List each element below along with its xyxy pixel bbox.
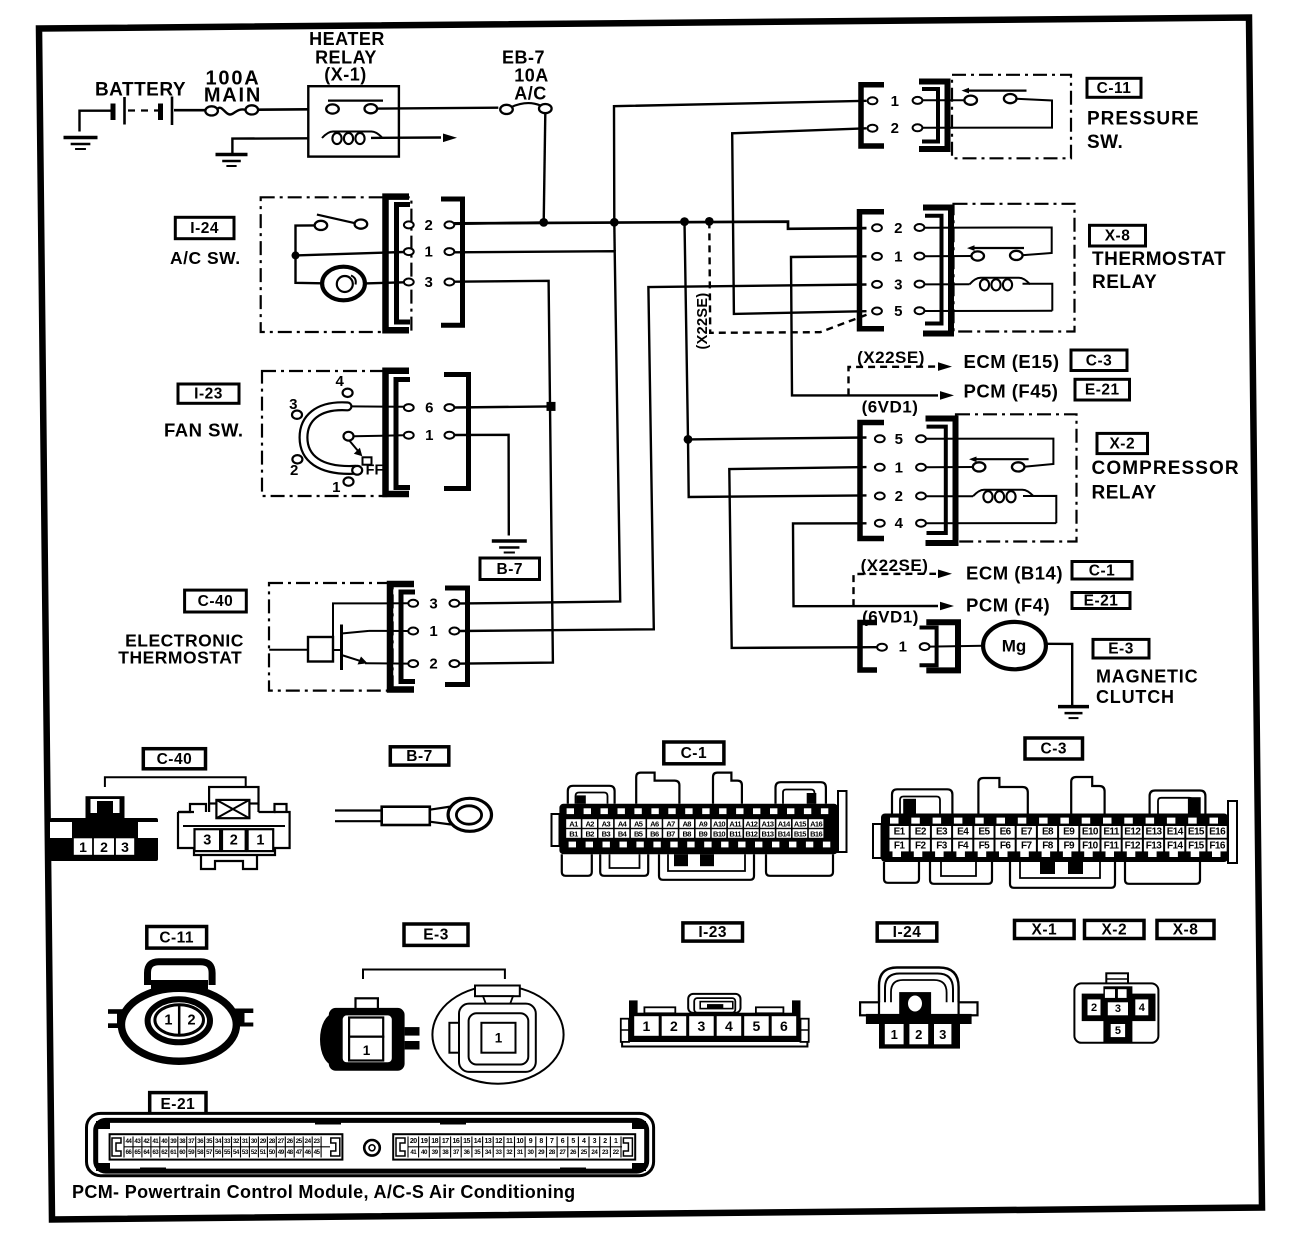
svg-text:4: 4: [725, 1018, 733, 1034]
svg-text:E10: E10: [1082, 827, 1099, 838]
wire: dashed (X22SE) branch to X-8 pin 5: [709, 221, 866, 332]
wire: C-11 pin 2 down to X-8 pin 5: [732, 128, 866, 314]
wire: Mg to ground: [1046, 644, 1072, 706]
svg-text:E13: E13: [1146, 827, 1163, 838]
connector I-23 label: [178, 384, 239, 403]
svg-text:E-21: E-21: [1084, 593, 1119, 610]
pressure switch contacts: [922, 88, 1052, 128]
svg-text:54: 54: [233, 1149, 240, 1156]
svg-text:4: 4: [582, 1138, 586, 1145]
svg-text:E-3: E-3: [423, 927, 449, 944]
svg-text:B5: B5: [634, 829, 643, 838]
compressor relay body (dashed): [956, 414, 1077, 541]
svg-text:E1: E1: [894, 827, 906, 838]
thermostat internals (sensor + transistor): [269, 603, 408, 670]
svg-text:35: 35: [474, 1149, 481, 1156]
wire: X-8 pin 1 to PCM (F45): [791, 256, 938, 395]
wire: X-8 pin 3 down to C-40 pin 1: [459, 285, 866, 632]
svg-text:15: 15: [463, 1138, 470, 1145]
compressor relay internals: [926, 439, 1057, 524]
svg-text:11: 11: [506, 1138, 513, 1145]
connector I-24 (A/C SW) pins: [386, 197, 463, 331]
connector E-21 (PCM 80-pin): [87, 1113, 654, 1175]
svg-text:E16: E16: [1209, 827, 1226, 838]
svg-text:61: 61: [170, 1149, 177, 1156]
connector X-1 label (bottom): [1015, 920, 1075, 938]
connector E-3 rear view (black): [320, 998, 420, 1071]
svg-text:1: 1: [425, 427, 434, 444]
connector C-40 front view (outline): [178, 787, 290, 869]
svg-text:F1: F1: [894, 840, 906, 851]
svg-text:E15: E15: [1188, 827, 1205, 838]
svg-text:45: 45: [314, 1149, 321, 1156]
connector E-3 pins: [860, 622, 958, 670]
svg-text:F10: F10: [1082, 840, 1098, 851]
svg-text:F8: F8: [1042, 840, 1054, 851]
svg-text:9: 9: [529, 1138, 533, 1145]
connector C-3 (32-pin): [873, 777, 1237, 888]
bracket line under E-3 label: [363, 970, 505, 980]
svg-text:I-24: I-24: [190, 220, 219, 237]
svg-text:B8: B8: [682, 829, 691, 838]
connector I-24 view: [860, 968, 977, 1049]
svg-text:E2: E2: [915, 827, 927, 838]
svg-text:5: 5: [894, 303, 903, 320]
connector I-24 label: [175, 217, 234, 238]
svg-text:27: 27: [559, 1149, 566, 1156]
svg-text:C-1: C-1: [681, 745, 707, 762]
svg-text:F6: F6: [1000, 840, 1012, 851]
connector E-3 label: [1093, 639, 1149, 658]
connector X-2 label: [1097, 433, 1148, 453]
svg-text:A16: A16: [810, 819, 822, 828]
svg-text:COMPRESSOR: COMPRESSOR: [1092, 458, 1240, 479]
fan switch outline (dashed): [262, 371, 386, 496]
svg-text:A13: A13: [762, 819, 774, 828]
svg-text:16: 16: [453, 1138, 460, 1145]
svg-text:6: 6: [561, 1138, 565, 1145]
svg-text:2: 2: [603, 1138, 607, 1145]
svg-text:A1: A1: [569, 819, 578, 828]
svg-text:3: 3: [894, 276, 903, 293]
svg-text:E8: E8: [1042, 827, 1054, 838]
svg-text:14: 14: [474, 1138, 481, 1145]
node: junction dots on B+ bus: [539, 218, 548, 227]
svg-text:B-7: B-7: [497, 561, 523, 578]
svg-text:37: 37: [188, 1138, 195, 1145]
svg-text:MAIN: MAIN: [204, 85, 262, 107]
svg-text:E5: E5: [978, 827, 990, 838]
svg-text:B3: B3: [602, 829, 611, 838]
node: square junction at FAN SW pin 6: [547, 402, 556, 411]
wire: A/C SW pin 3 down to C-40 pin 2 (via FAN SW junction): [453, 281, 553, 664]
svg-text:C-11: C-11: [1097, 80, 1132, 97]
svg-text:PCM- Powertrain Control Module: PCM- Powertrain Control Module, A/C-S Ai…: [72, 1182, 576, 1202]
ground (magnetic clutch): [1058, 707, 1089, 719]
svg-text:7: 7: [550, 1138, 554, 1145]
wire: junction up to C-11 pin 1: [614, 101, 867, 223]
svg-text:10A: 10A: [514, 66, 549, 86]
wire: X-2 pin 1 down to E-3 pin 1: [729, 467, 877, 648]
svg-text:1: 1: [895, 459, 904, 476]
svg-text:30: 30: [251, 1138, 258, 1145]
svg-text:C-1: C-1: [1089, 562, 1115, 579]
svg-text:52: 52: [251, 1149, 258, 1156]
svg-text:F15: F15: [1188, 840, 1204, 851]
svg-text:8: 8: [539, 1138, 543, 1145]
svg-text:59: 59: [188, 1149, 195, 1156]
wire: dashed branch to ECM (B14): [854, 574, 937, 606]
svg-text:A11: A11: [729, 819, 741, 828]
svg-text:(X22SE): (X22SE): [857, 348, 925, 367]
svg-text:(X22SE): (X22SE): [861, 556, 929, 575]
svg-text:30: 30: [528, 1149, 535, 1156]
ground B-7 label: [480, 558, 540, 580]
svg-text:2: 2: [429, 656, 438, 673]
svg-text:F4: F4: [957, 840, 969, 851]
svg-text:12: 12: [495, 1138, 502, 1145]
svg-text:B7: B7: [666, 829, 675, 838]
svg-text:A12: A12: [745, 819, 757, 828]
connector C-40 pins: [390, 584, 468, 690]
svg-text:57: 57: [206, 1149, 213, 1156]
svg-text:X-1: X-1: [1031, 921, 1057, 938]
wire: X-2 pin 4 to PCM (F4): [793, 523, 938, 606]
ground (heater relay coil): [216, 155, 248, 167]
thermostat relay internals: [924, 228, 1052, 312]
svg-text:2: 2: [894, 220, 903, 237]
svg-text:C-40: C-40: [157, 751, 193, 768]
svg-text:A3: A3: [602, 819, 611, 828]
svg-text:5: 5: [753, 1018, 761, 1034]
svg-text:ECM (E15): ECM (E15): [964, 351, 1060, 372]
connector C-11 label: [1087, 78, 1141, 97]
ground (battery): [64, 138, 98, 150]
svg-text:B-7: B-7: [406, 748, 432, 765]
svg-text:4: 4: [1139, 1002, 1146, 1014]
svg-text:E3: E3: [936, 827, 948, 838]
svg-text:X-8: X-8: [1173, 921, 1199, 938]
svg-text:MAGNETIC: MAGNETIC: [1096, 667, 1198, 687]
connector X-8 label: [1090, 225, 1146, 246]
svg-text:B4: B4: [618, 829, 628, 838]
connector E-21 label (bottom): [150, 1093, 206, 1116]
wire: main B+ bus row: [454, 222, 867, 229]
svg-text:FAN SW.: FAN SW.: [164, 420, 244, 441]
svg-text:1: 1: [643, 1018, 651, 1034]
svg-text:2: 2: [1091, 1002, 1097, 1014]
svg-text:10: 10: [516, 1138, 523, 1145]
svg-text:E7: E7: [1021, 827, 1033, 838]
svg-text:X-2: X-2: [1101, 921, 1127, 938]
svg-text:I-23: I-23: [698, 924, 727, 941]
svg-text:1: 1: [424, 244, 433, 261]
svg-text:B15: B15: [794, 829, 806, 838]
magnetic clutch Mg: [983, 622, 1046, 669]
svg-text:E12: E12: [1124, 827, 1141, 838]
svg-text:1: 1: [332, 479, 341, 496]
svg-text:1: 1: [891, 93, 900, 110]
svg-text:A8: A8: [682, 819, 691, 828]
svg-text:19: 19: [421, 1138, 428, 1145]
svg-text:F11: F11: [1104, 840, 1120, 851]
svg-text:Mg: Mg: [1002, 637, 1027, 656]
svg-text:37: 37: [453, 1149, 460, 1156]
svg-text:THERMOSTAT: THERMOSTAT: [118, 648, 242, 668]
svg-text:E-21: E-21: [1085, 382, 1120, 399]
svg-text:3: 3: [698, 1018, 706, 1034]
svg-text:1: 1: [256, 833, 264, 849]
svg-text:E6: E6: [1000, 827, 1012, 838]
svg-text:6: 6: [425, 400, 434, 417]
svg-text:A2: A2: [585, 819, 594, 828]
svg-text:X-2: X-2: [1109, 436, 1135, 453]
svg-text:B6: B6: [650, 829, 659, 838]
connector X-8 (thermostat relay) pins: [860, 208, 952, 334]
svg-text:5: 5: [895, 431, 904, 448]
connector X-2 (compressor relay) pins: [860, 419, 956, 544]
electronic thermostat outline (dashed): [269, 583, 393, 691]
svg-text:B13: B13: [762, 829, 774, 838]
svg-text:28: 28: [269, 1138, 276, 1145]
fuse EB-7 10A A/C: [500, 48, 551, 115]
svg-text:32: 32: [506, 1149, 513, 1156]
svg-text:A5: A5: [634, 819, 643, 828]
connector C-1 (32-pin): [552, 773, 847, 880]
connector C-3 label (bottom): [1025, 738, 1083, 759]
svg-text:C-11: C-11: [159, 929, 194, 946]
svg-text:25: 25: [581, 1149, 588, 1156]
wire: junction down to X-2 pin 5 / pin 2: [685, 222, 867, 497]
connector C-40 label: [185, 590, 247, 612]
svg-text:3: 3: [593, 1138, 597, 1145]
svg-text:23: 23: [314, 1138, 321, 1145]
connector C-40 label (bottom): [143, 749, 205, 769]
svg-text:CLUTCH: CLUTCH: [1096, 687, 1175, 707]
svg-text:1: 1: [495, 1030, 503, 1045]
connector E-21 ref label lower: [1072, 593, 1130, 609]
A/C switch outline (dashed): [261, 197, 412, 332]
svg-text:F14: F14: [1167, 840, 1183, 851]
svg-text:A4: A4: [618, 819, 628, 828]
svg-text:44: 44: [125, 1138, 132, 1145]
connector I-23 (FAN SW) pins: [386, 371, 469, 494]
svg-text:B10: B10: [713, 829, 725, 838]
svg-text:B1: B1: [569, 829, 578, 838]
svg-text:A/C: A/C: [514, 84, 547, 104]
svg-text:A14: A14: [778, 819, 791, 828]
svg-text:RELAY: RELAY: [1092, 272, 1157, 293]
svg-text:22: 22: [613, 1149, 620, 1156]
wire: A/C SW pin 2 to B+ junction: [455, 222, 544, 224]
svg-text:5: 5: [1115, 1025, 1121, 1037]
connector E-3 front view (outline): [432, 986, 563, 1084]
svg-text:F2: F2: [915, 840, 927, 851]
svg-text:A6: A6: [650, 819, 659, 828]
svg-text:1: 1: [894, 248, 903, 265]
svg-text:1: 1: [79, 839, 87, 855]
svg-text:FF: FF: [366, 463, 384, 479]
svg-text:3: 3: [203, 833, 211, 849]
svg-text:SW.: SW.: [1087, 132, 1123, 153]
svg-text:E-3: E-3: [1108, 641, 1134, 658]
svg-text:EB-7: EB-7: [502, 48, 545, 68]
connector X-2 label (bottom): [1085, 920, 1145, 938]
connector E-3 label (bottom): [404, 924, 468, 945]
svg-text:B14: B14: [778, 829, 791, 838]
svg-text:3: 3: [429, 595, 438, 612]
svg-text:F5: F5: [979, 840, 991, 851]
pressure switch body (dashed): [952, 75, 1071, 159]
svg-text:39: 39: [170, 1138, 177, 1145]
svg-text:35: 35: [206, 1138, 213, 1145]
svg-text:20: 20: [410, 1138, 417, 1145]
wire: E-3 to magnetic clutch: [930, 645, 984, 648]
svg-text:F16: F16: [1209, 840, 1225, 851]
connector C-1 ref label: [1072, 562, 1132, 580]
connector E-21 ref label: [1075, 379, 1130, 400]
svg-text:F12: F12: [1125, 840, 1141, 851]
svg-text:3: 3: [121, 839, 129, 855]
svg-text:E14: E14: [1167, 827, 1184, 838]
svg-text:A/C SW.: A/C SW.: [170, 248, 241, 268]
svg-text:C-3: C-3: [1041, 741, 1067, 758]
svg-text:1: 1: [891, 1027, 898, 1042]
svg-text:40: 40: [421, 1149, 428, 1156]
svg-text:F7: F7: [1021, 840, 1033, 851]
bracket line under C-40 label: [105, 777, 246, 787]
svg-text:B16: B16: [810, 829, 822, 838]
svg-text:ECM (B14): ECM (B14): [966, 562, 1063, 583]
connector X-1/X-2/X-8 view: [1074, 973, 1158, 1043]
svg-text:RELAY: RELAY: [1092, 482, 1157, 503]
connector I-24 label (bottom): [877, 923, 937, 941]
svg-text:(X22SE): (X22SE): [695, 293, 711, 350]
battery: [80, 80, 206, 132]
connector C-1 label (bottom): [664, 742, 724, 764]
svg-text:B12: B12: [745, 829, 757, 838]
svg-text:THERMOSTAT: THERMOSTAT: [1092, 249, 1226, 270]
svg-text:26: 26: [287, 1138, 294, 1145]
svg-text:E4: E4: [957, 827, 969, 838]
svg-text:X-8: X-8: [1105, 228, 1131, 245]
svg-text:HEATER: HEATER: [309, 29, 385, 49]
connector C-11 round view: [108, 962, 254, 1061]
svg-text:F13: F13: [1146, 840, 1162, 851]
ground B-7: [492, 541, 527, 553]
wire: FAN SW pin 1 to ground B-7: [455, 435, 509, 536]
svg-text:(6VD1): (6VD1): [862, 398, 919, 417]
svg-text:66: 66: [125, 1149, 132, 1156]
rotary fan switch: [289, 373, 404, 496]
switch (A/C SW): [292, 215, 405, 284]
svg-text:3: 3: [939, 1027, 946, 1042]
svg-text:2: 2: [230, 833, 238, 849]
svg-text:B2: B2: [585, 829, 594, 838]
svg-text:PRESSURE: PRESSURE: [1087, 109, 1200, 130]
svg-text:3: 3: [424, 274, 433, 291]
svg-text:2: 2: [188, 1012, 196, 1028]
svg-text:I-23: I-23: [194, 386, 223, 403]
svg-text:2: 2: [915, 1027, 922, 1042]
svg-text:B11: B11: [729, 829, 741, 838]
svg-text:4: 4: [335, 373, 344, 390]
svg-text:B9: B9: [699, 829, 708, 838]
svg-text:2: 2: [895, 488, 904, 505]
svg-text:18: 18: [431, 1138, 438, 1145]
svg-text:1: 1: [614, 1138, 618, 1145]
svg-text:4: 4: [895, 515, 904, 532]
wire: dashed branch to ECM (E15): [849, 367, 937, 396]
fuse 100A MAIN (fusible link): [204, 68, 308, 116]
connector C-3 ref label: [1071, 350, 1127, 371]
wire: EB-7 fuse down to B+ junction: [544, 113, 546, 222]
connector C-40 rear view (black): [50, 796, 158, 861]
svg-text:2: 2: [891, 120, 900, 137]
connector I-23 view: [621, 994, 809, 1047]
svg-text:(X-1): (X-1): [324, 65, 367, 85]
connector C-11 label (bottom): [147, 927, 207, 949]
svg-text:32: 32: [233, 1138, 240, 1145]
svg-text:3: 3: [1115, 1003, 1121, 1015]
B-7 ring terminal: [335, 798, 491, 831]
svg-text:I-24: I-24: [893, 924, 922, 941]
connector I-23 label (bottom): [683, 923, 743, 941]
svg-text:F9: F9: [1063, 840, 1075, 851]
svg-text:1: 1: [899, 639, 908, 656]
svg-text:2: 2: [424, 217, 433, 234]
svg-text:A9: A9: [699, 819, 708, 828]
ground B-7 label (bottom): [390, 747, 449, 765]
svg-text:A15: A15: [794, 819, 806, 828]
svg-text:E9: E9: [1063, 827, 1075, 838]
svg-text:2: 2: [100, 839, 108, 855]
svg-text:6: 6: [780, 1018, 788, 1034]
svg-text:48: 48: [287, 1149, 294, 1156]
svg-text:1: 1: [164, 1012, 172, 1028]
wire: junction down to A/C SW pin 1 and on down to C-40 pin 3: [613, 222, 616, 251]
svg-text:2: 2: [670, 1018, 678, 1034]
thermostat relay body (dashed): [954, 204, 1075, 332]
connector X-8 label (bottom): [1157, 920, 1214, 938]
svg-text:C-3: C-3: [1086, 352, 1112, 369]
svg-text:A7: A7: [666, 819, 675, 828]
svg-text:17: 17: [442, 1138, 449, 1145]
svg-text:E-21: E-21: [160, 1096, 195, 1113]
svg-text:50: 50: [269, 1149, 276, 1156]
svg-text:1: 1: [363, 1043, 371, 1058]
relay X-1 (heater relay): [232, 29, 498, 157]
svg-text:5: 5: [571, 1138, 575, 1145]
svg-text:13: 13: [484, 1138, 491, 1145]
wire: FAN SW pin 6 to junction: [455, 406, 552, 407]
svg-text:F3: F3: [936, 840, 948, 851]
svg-text:1: 1: [429, 623, 438, 640]
svg-text:PCM (F4): PCM (F4): [966, 594, 1050, 615]
svg-text:E11: E11: [1103, 827, 1119, 838]
svg-text:PCM (F45): PCM (F45): [964, 381, 1059, 402]
lamp (A/C indicator): [322, 267, 404, 301]
svg-text:A10: A10: [713, 819, 725, 828]
connector C-11 (pressure switch) pins: [861, 82, 948, 150]
svg-text:C-40: C-40: [198, 593, 234, 610]
